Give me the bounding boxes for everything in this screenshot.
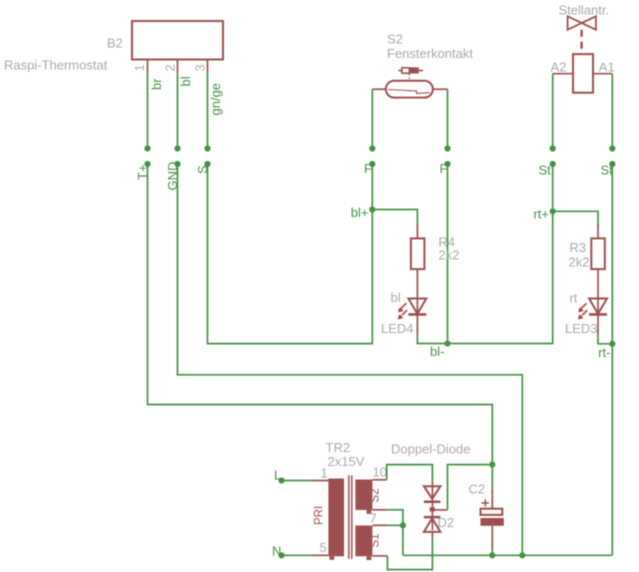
node rt-: [609, 341, 615, 347]
node T+: [144, 161, 150, 167]
wire S2 bottom pin to center tap node: [387, 510, 403, 526]
LED3 emission arrows: [582, 303, 587, 308]
wire S1 bottom pin to bottom diode anode: [387, 538, 432, 570]
LED3 bottom pin: [597, 314, 599, 334]
wire LED4 cathode to rt+ rail: [417, 211, 552, 343]
svg-text:LED3: LED3: [565, 321, 598, 336]
S1 winding lead bump: [367, 556, 372, 560]
bottom rail wire: [403, 554, 612, 556]
primary winding lead bump: [329, 556, 334, 560]
transformer TR2 pin 1: [312, 480, 329, 482]
LED4 bottom pin: [416, 314, 418, 334]
transformer TR2 primary winding: [328, 479, 344, 557]
node F left: [369, 161, 375, 167]
node bl+: [369, 206, 375, 212]
valve symbol of actuator: [568, 16, 582, 29]
junction St right top: [609, 145, 615, 151]
node S: [204, 161, 210, 167]
svg-text:Stellantr.: Stellantr.: [559, 3, 610, 18]
pin A2: [553, 73, 573, 75]
wire N to primary pin 5: [282, 554, 312, 556]
wire St right down through rt- to bottom rail: [611, 164, 613, 555]
svg-text:D2: D2: [438, 515, 455, 530]
wire F right down to bl-: [447, 164, 449, 344]
svg-text:L: L: [274, 468, 281, 483]
transformer TR2 core: [348, 475, 350, 559]
LED4 cathode bar: [408, 313, 426, 316]
node L: [278, 477, 284, 483]
node St right: [609, 161, 615, 167]
svg-text:2x15V: 2x15V: [328, 454, 365, 469]
svg-text:2: 2: [163, 64, 178, 71]
wire center tap of D2 to T+ node: [435, 509, 448, 511]
svg-text:PRI: PRI: [314, 506, 326, 525]
connector B2 body: [132, 21, 223, 60]
junction on wire gn/ge: [204, 145, 210, 151]
junction on wire bl: [174, 145, 180, 151]
pin 2 of B2: [177, 60, 179, 74]
svg-text:St: St: [539, 163, 552, 178]
node rectifier output: [489, 462, 495, 468]
LED3 through lead: [597, 299, 599, 315]
svg-text:TR2: TR2: [326, 440, 351, 455]
reed switch actuator magnet: [402, 68, 410, 73]
wire T+ down and across to rectifier center: [148, 164, 493, 465]
svg-text:F: F: [440, 161, 448, 176]
capacitor C2 top plate: [481, 509, 503, 515]
svg-text:3: 3: [193, 64, 208, 71]
transformer TR2 secondary winding S2: [355, 480, 372, 511]
node F right: [444, 161, 450, 167]
double diode D2 center junction: [430, 507, 435, 511]
pin A1: [593, 73, 612, 75]
wire bl from pin 2: [177, 73, 179, 149]
wire F left down to bl+: [371, 164, 373, 210]
wire from A1 to St junction: [611, 74, 613, 149]
pin 3 of B2: [207, 60, 209, 74]
svg-text:S2: S2: [387, 32, 403, 47]
svg-text:A1: A1: [599, 59, 615, 74]
junction on wire br: [144, 145, 150, 151]
pin 1 of B2: [147, 60, 149, 74]
transformer TR2 pin 5: [312, 554, 329, 556]
node GND: [174, 161, 180, 167]
wire from reed right to F junction: [447, 89, 449, 148]
double diode D2 top diode: [424, 486, 441, 499]
transformer TR2 secondary winding S1: [355, 526, 372, 557]
dashed link valve to coil: [580, 30, 582, 54]
svg-text:bl-: bl-: [430, 344, 444, 359]
svg-text:gn/ge: gn/ge: [208, 83, 223, 116]
resistor R3 top pin: [597, 224, 599, 238]
resistor R3 body: [591, 238, 605, 269]
svg-text:R3: R3: [569, 240, 586, 255]
reed switch right lead: [433, 88, 448, 90]
junction C2 on rail: [489, 552, 495, 558]
wire GND down and across to bottom rail: [178, 164, 523, 555]
capacitor C2 bottom plate: [481, 518, 504, 526]
svg-text:2k2: 2k2: [438, 248, 459, 263]
svg-text:Doppel-Diode: Doppel-Diode: [391, 442, 471, 457]
LED3 triangle: [589, 299, 607, 314]
wire center tap to bottom rail: [402, 525, 404, 555]
LED4 triangle: [408, 299, 426, 314]
svg-text:F: F: [364, 161, 372, 176]
junction GND on rail: [519, 552, 525, 558]
LED4 through lead: [416, 299, 418, 315]
junction St left top: [550, 145, 556, 151]
S2 winding lead bump: [367, 510, 372, 514]
svg-text:bl: bl: [178, 76, 193, 86]
svg-text:A2: A2: [551, 59, 567, 74]
node rt+: [550, 208, 556, 214]
capacitor C2 plus sign: [482, 502, 490, 504]
capacitor C2 top lead: [491, 490, 493, 509]
svg-text:5: 5: [320, 540, 327, 555]
svg-text:S2: S2: [370, 488, 382, 502]
wire rt+ to R3: [553, 211, 598, 226]
node St left: [550, 161, 556, 167]
transformer TR2 pin 10: [372, 479, 386, 481]
junction left F top: [369, 145, 375, 151]
junction right F top: [444, 145, 450, 151]
svg-text:bl+: bl+: [351, 205, 369, 220]
wire St left down to rt+: [552, 164, 554, 211]
double diode D2 bottom anode pin: [431, 532, 433, 538]
node center tap: [400, 522, 406, 528]
wire from A2 to St junction: [552, 74, 554, 149]
reed switch S2 capsule: [386, 81, 433, 98]
svg-text:rt-: rt-: [598, 345, 610, 360]
svg-text:St: St: [601, 163, 614, 178]
svg-text:7: 7: [370, 511, 377, 526]
resistor R4 top pin: [416, 224, 418, 238]
svg-text:LED4: LED4: [381, 321, 414, 336]
wire pin 10 to top diode anode: [387, 465, 433, 481]
resistor R4 bottom pin: [416, 269, 418, 298]
wire C2 bottom to rail: [491, 548, 493, 555]
svg-text:2k2: 2k2: [569, 255, 590, 270]
svg-text:br: br: [149, 78, 164, 90]
transformer TR2 S2 bottom pin: [372, 509, 386, 511]
double diode D2 top anode pin: [431, 481, 433, 485]
svg-text:N: N: [272, 544, 281, 559]
transformer TR2 S1 bottom pin: [372, 555, 387, 557]
svg-text:bl: bl: [391, 290, 401, 305]
reed switch contact blade: [388, 90, 430, 94]
double diode D2 bottom diode: [424, 516, 441, 519]
double diode D2 center link: [431, 485, 433, 530]
svg-text:10: 10: [373, 465, 387, 480]
svg-text:rt: rt: [570, 291, 578, 306]
svg-text:Fensterkontakt: Fensterkontakt: [387, 46, 473, 61]
svg-text:1: 1: [321, 466, 328, 481]
LED3 cathode bar: [589, 313, 607, 316]
resistor R3 bottom pin: [597, 269, 599, 298]
actuator coil body: [573, 54, 593, 93]
svg-text:B2: B2: [107, 36, 123, 51]
svg-text:C2: C2: [469, 482, 486, 497]
reed switch left lead: [372, 88, 386, 90]
wire LED3 cathode to rt-: [598, 334, 612, 344]
capacitor C2 bottom lead: [491, 526, 493, 548]
wire L to primary pin 1: [282, 480, 312, 482]
wire pin 7 to center tap node: [387, 524, 403, 526]
wire br from pin 1: [147, 73, 149, 149]
svg-text:Raspi-Thermostat: Raspi-Thermostat: [4, 58, 108, 73]
LED4 emission arrows: [401, 303, 406, 308]
wire node to C2: [491, 465, 493, 492]
node N: [278, 552, 284, 558]
wire gn/ge from pin 3: [207, 73, 209, 149]
svg-text:rt+: rt+: [533, 207, 549, 222]
wire S down and across to bl+: [208, 164, 373, 344]
node bl-: [444, 340, 450, 346]
svg-text:S1: S1: [370, 533, 382, 547]
wire from reed left to F junction: [371, 89, 373, 148]
transformer TR2 pin 7: [372, 524, 386, 526]
resistor R4 body: [411, 238, 425, 269]
wire bl+ to R4: [372, 210, 417, 227]
svg-text:1: 1: [132, 64, 147, 71]
